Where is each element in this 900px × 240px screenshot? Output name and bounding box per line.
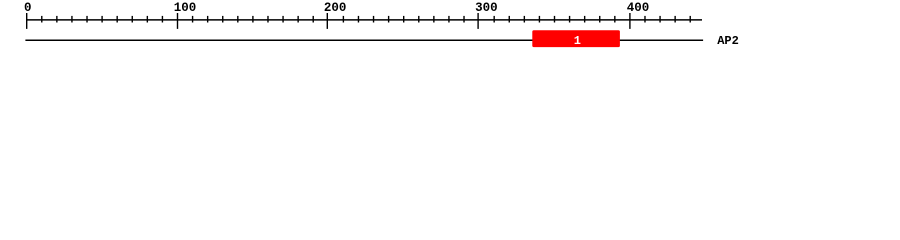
svg-text:1: 1	[574, 34, 581, 48]
svg-text:AP2: AP2	[717, 34, 739, 48]
svg-text:300: 300	[475, 1, 498, 15]
ruler minor ticks	[42, 16, 690, 23]
protein backbone line	[25, 39, 703, 41]
svg-text:0: 0	[24, 1, 32, 15]
domain box 1 (AP2 domain)	[532, 30, 620, 47]
svg-text:100: 100	[174, 1, 197, 15]
svg-text:200: 200	[324, 1, 347, 15]
svg-text:400: 400	[627, 1, 650, 15]
ruler scale line	[26, 19, 702, 21]
ruler major ticks	[27, 13, 630, 29]
